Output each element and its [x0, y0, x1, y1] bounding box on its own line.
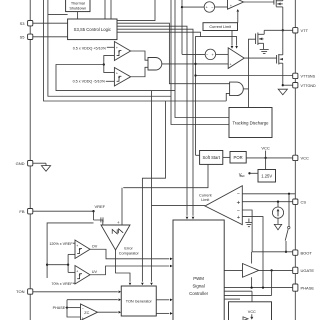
wire BOOT to driver top	[251, 252, 253, 264]
svg-text:Current: Current	[199, 193, 213, 197]
svg-text:S3: S3	[20, 21, 26, 26]
wire UGATE feedback down	[271, 270, 273, 295]
node VDDQ/2 junction	[103, 63, 105, 65]
wire comparator input 1	[242, 193, 295, 195]
pin S5	[28, 34, 33, 39]
S3,S5 control logic box	[68, 19, 117, 40]
wire driver low side to PHASE	[251, 277, 253, 287]
wire PHASE branch to ZC plus	[67, 308, 81, 317]
svg-text:70% x VREF: 70% x VREF	[51, 282, 73, 286]
wire S5 to control logic	[33, 36, 68, 38]
wire error comparator output to TON generator	[116, 250, 131, 282]
wire comparator input 3 to BOOT switch	[242, 210, 252, 252]
wire label to lower comparator minus	[106, 80, 115, 82]
OV comparator	[75, 240, 90, 259]
wire tracking discharge to FET gate	[249, 39, 256, 107]
comparator OVP 0.5xVDDQ upper	[114, 42, 130, 61]
comparator lower plus wire	[104, 65, 115, 73]
wire FB to OV UV inputs	[47, 264, 68, 266]
wire soft start output to error comparator ref	[123, 164, 208, 187]
wire W1 tap to op-amp plus	[196, 63, 229, 65]
CS current source	[277, 202, 279, 207]
wire VDDQ/2 input	[56, 65, 175, 91]
svg-text:+: +	[236, 200, 240, 207]
svg-text:Current Limit: Current Limit	[209, 25, 232, 29]
wire ref into error comparator plus	[121, 188, 123, 225]
svg-text:+: +	[229, 62, 231, 66]
pin VTTSNS	[293, 73, 298, 78]
svg-text:+: +	[76, 244, 78, 248]
wire G2 output	[243, 88, 248, 90]
PWM signal controller box	[173, 220, 224, 320]
svg-text:PWM: PWM	[193, 276, 204, 281]
wire source FET to VTT node	[282, 7, 284, 30]
wire PWM to driver	[224, 269, 242, 271]
wire G1 output to node W1	[162, 63, 196, 65]
source FET top	[273, 0, 275, 5]
svg-text:UGATE: UGATE	[301, 268, 315, 273]
low-side driver glyph	[243, 317, 248, 320]
node VTTGND	[282, 84, 284, 86]
reference 1.25V box	[258, 170, 276, 183]
wire comparator output to TON rail	[152, 205, 206, 207]
wire VTTSNS line	[196, 75, 293, 77]
node offset tap	[181, 6, 183, 8]
wire soft start to POR	[223, 156, 230, 158]
wire PHASE to TON generator	[66, 300, 68, 308]
wire comparator lower output to AND gate	[131, 67, 148, 76]
svg-text:Signal: Signal	[192, 284, 204, 289]
svg-text:120% x VREF: 120% x VREF	[49, 242, 73, 246]
sink FET	[276, 55, 278, 64]
UV comparator	[75, 266, 90, 285]
node W1 VTTSNS tap	[194, 74, 196, 76]
svg-text:0.5 x VDDQ +5/10%: 0.5 x VDDQ +5/10%	[73, 47, 107, 51]
wire FB to VREF node	[33, 210, 94, 212]
wire comparator input 4 to PHASE	[242, 217, 263, 288]
error comparator clamp glyph	[112, 229, 117, 233]
svg-text:Limit: Limit	[201, 198, 210, 202]
wire VDDQ rail inner	[48, 0, 171, 96]
pin TON	[28, 289, 33, 294]
current limit comparator	[205, 186, 242, 225]
VTT sink op-amp	[228, 48, 244, 69]
node VCC tap	[264, 157, 266, 159]
svg-text:1.25V: 1.25V	[261, 174, 272, 179]
wire BOOT line	[252, 251, 293, 253]
node W1 lower input tap	[194, 63, 196, 65]
AND gate G2	[230, 82, 244, 96]
wire VREF down	[93, 211, 95, 220]
current limit box	[203, 23, 238, 31]
wire discharge FET source to ground	[263, 43, 265, 49]
svg-text:−: −	[237, 208, 240, 214]
thermal shutdown box	[66, 0, 90, 12]
wire PHASE to ZC minus	[67, 307, 81, 309]
wire current source to arrow	[277, 218, 279, 224]
IC boundary left rail	[29, 0, 31, 320]
IC boundary right rail	[294, 0, 296, 320]
wire PWM aux 1	[224, 290, 252, 292]
svg-text:PHASE: PHASE	[301, 285, 315, 290]
svg-text:UV: UV	[92, 270, 98, 274]
comparator UVP 0.5xVDDQ lower	[114, 68, 130, 87]
current source ground arrow	[274, 224, 281, 229]
wire control logic output 2 to PWM controller	[117, 26, 187, 216]
svg-text:VTTSNS: VTTSNS	[301, 75, 316, 79]
offset source circle 2	[205, 49, 216, 60]
wire op-amp out to sink FET gate	[244, 57, 276, 59]
svg-text:+: +	[82, 316, 84, 320]
svg-text:Soft Start: Soft Start	[202, 155, 220, 160]
wire control logic output 1 to G2 gate	[117, 23, 230, 83]
wire VDDQ branch to TON generator	[142, 101, 165, 282]
wire VTT node to sink FET drain	[282, 30, 284, 55]
pin VTT	[293, 28, 298, 33]
comparator upper minus wire	[104, 56, 115, 65]
wire from top to offset circles	[181, 0, 183, 54]
upper gate driver	[243, 264, 259, 278]
wire UV output to PWM	[90, 266, 169, 275]
ground below discharge FET	[260, 48, 269, 50]
wire control logic output 4	[117, 32, 201, 36]
tracking discharge box	[229, 108, 272, 138]
pin GND	[28, 161, 33, 166]
wire circle1 to current limit comparator	[215, 6, 228, 8]
svg-text:+: +	[230, 4, 232, 8]
svg-text:+: +	[116, 46, 118, 50]
wire TON generator output upper	[156, 299, 169, 301]
svg-text:Controller: Controller	[189, 291, 209, 296]
svg-text:−: −	[82, 306, 84, 310]
pin FB	[28, 209, 33, 214]
wire OV output to PWM	[90, 249, 169, 259]
wire into control logic left upper	[48, 14, 68, 16]
wire VCC to reference	[265, 158, 267, 170]
node UGATE tap	[270, 269, 272, 271]
pin UGATE	[293, 267, 298, 273]
discharge FET	[255, 34, 257, 45]
svg-text:TON: TON	[16, 289, 24, 294]
wire PHASE rail	[224, 287, 293, 289]
svg-text:CS: CS	[301, 199, 307, 204]
node FB branch	[46, 264, 48, 266]
svg-text:VTTGND: VTTGND	[301, 84, 316, 88]
wire driver to UGATE	[259, 269, 293, 271]
svg-text:GND: GND	[16, 161, 25, 166]
wire POR to VCC pin	[246, 157, 293, 159]
pin S3	[28, 21, 33, 26]
wire VTT to pin	[264, 29, 293, 31]
node switch top	[288, 193, 290, 195]
wire comparator input 2 CS	[242, 201, 292, 203]
svg-text:S5: S5	[20, 35, 26, 40]
wire from top into control logic right	[117, 0, 155, 21]
wire TON pin to TON generator	[33, 291, 118, 293]
wire to offset circle 1	[182, 6, 204, 8]
svg-text:ZC: ZC	[84, 311, 89, 315]
low-side driver box VCC	[229, 302, 272, 320]
wire ZC output to TON generator	[98, 311, 118, 313]
svg-text:+: +	[117, 220, 120, 225]
wire PWM aux 2 UGATE sense	[224, 294, 271, 296]
wire PWM aux 3	[224, 298, 240, 300]
TON generator box	[121, 286, 156, 316]
wire VDDQ rail outer	[44, 0, 227, 101]
wire G2 lower input	[226, 93, 229, 101]
pin VCC	[293, 155, 298, 160]
wire TON generator output lower	[156, 312, 169, 314]
svg-text:VCC: VCC	[261, 145, 270, 150]
svg-text:TON Generator: TON Generator	[126, 300, 153, 304]
wire to tracking discharge lower	[171, 0, 229, 125]
node VTT	[282, 29, 284, 31]
svg-text:POR: POR	[234, 155, 243, 160]
AND gate G1	[148, 58, 162, 71]
offset source circle 1	[204, 2, 215, 13]
wire thermal shutdown to control logic	[77, 12, 79, 19]
node PHASE tap	[66, 306, 68, 308]
wire top into control logic A	[104, 0, 106, 19]
node VREF	[92, 210, 94, 212]
svg-text:+: +	[237, 215, 241, 221]
svg-text:VCC: VCC	[301, 156, 310, 161]
node CS tap	[277, 201, 279, 203]
svg-text:OV: OV	[92, 244, 98, 248]
wire Vref terminal	[248, 172, 250, 174]
svg-text:VTT: VTT	[301, 28, 309, 33]
soft start box	[200, 151, 223, 165]
wire GND pin to ground	[33, 162, 46, 164]
pin PHASE	[293, 284, 298, 291]
svg-text:+: +	[116, 72, 118, 76]
svg-text:0.5 x VDDQ -5/10%: 0.5 x VDDQ -5/10%	[73, 80, 106, 84]
svg-text:Error: Error	[124, 246, 133, 250]
error comparator	[101, 225, 130, 250]
wire W1 into soft start	[196, 154, 200, 156]
error comparator minus marks	[100, 217, 102, 222]
POR box	[230, 152, 246, 164]
svg-text:Comparator: Comparator	[119, 252, 140, 256]
svg-text:FB: FB	[19, 209, 24, 214]
svg-text:VREF: VREF	[94, 204, 105, 209]
wire label to comparator plus	[107, 46, 115, 48]
svg-text:S3,S5 Control Logic: S3,S5 Control Logic	[74, 27, 111, 32]
wire S3 to control logic	[33, 22, 68, 24]
svg-text:Thermal: Thermal	[71, 2, 85, 6]
wire circle2 to sink op-amp	[216, 53, 229, 55]
wire VDDQ/2 branch down to TON generator	[151, 91, 153, 282]
wire top into control logic B	[110, 0, 112, 19]
svg-text:VCC: VCC	[248, 310, 256, 314]
VTT source current-limit comparator (cropped)	[228, 0, 244, 9]
wire comparator upper output to AND gate	[131, 51, 148, 60]
wire control logic output 3 to PWM controller	[117, 29, 193, 216]
wire sink FET source to VTTGND	[282, 63, 284, 85]
wire current limit down to sink op-amp	[231, 31, 233, 46]
node BOOT junction	[285, 251, 287, 253]
wire W1 enable rail	[196, 37, 237, 156]
ground symbol GND pin	[41, 166, 50, 172]
wire FB branch down to OV UV	[47, 223, 93, 278]
analog ground symbol	[278, 89, 287, 95]
comparator bias ground	[248, 219, 250, 223]
switch to BOOT	[288, 194, 290, 227]
svg-text:BOOT: BOOT	[301, 250, 313, 255]
wire to offset circle 2	[182, 53, 205, 55]
svg-text:Shutdown: Shutdown	[69, 7, 86, 11]
pin VTTGND	[293, 83, 298, 88]
wire to tracking discharge upper	[175, 0, 229, 118]
wire VTTGND to pin	[283, 84, 293, 86]
svg-text:Tracking Discharge: Tracking Discharge	[233, 120, 270, 125]
svg-text:REF: REF	[240, 174, 246, 178]
pin BOOT	[293, 250, 298, 255]
wire VREF to error comparator minus	[94, 220, 103, 225]
wire current limit up-arrow to comparator	[237, 12, 239, 23]
wire comparator out to source FET gate	[244, 1, 274, 3]
ZC comparator	[81, 304, 98, 320]
svg-text:PHASE: PHASE	[53, 306, 66, 310]
pin CS	[293, 199, 298, 204]
svg-text:+: +	[76, 269, 78, 273]
svg-text:−: −	[237, 192, 240, 198]
